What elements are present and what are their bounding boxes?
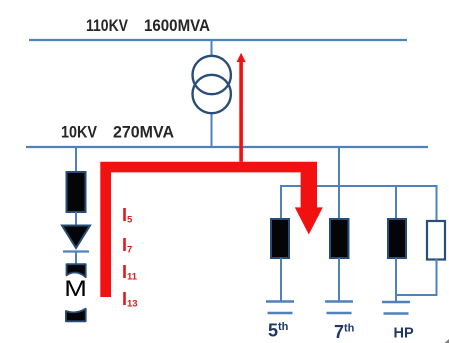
- reactor 5th: [271, 219, 289, 258]
- wire drive branch: [75, 147, 77, 173]
- transformer T1: [193, 56, 231, 113]
- svg-text:I13: I13: [122, 289, 138, 310]
- red harmonic current path: [100, 162, 317, 297]
- svg-text:110KV: 110KV: [86, 16, 129, 35]
- bus 10KV: [26, 146, 428, 148]
- diode D1: [62, 226, 90, 252]
- svg-text:7th: 7th: [334, 322, 355, 342]
- svg-text:270MVA: 270MVA: [113, 123, 174, 142]
- wire 5th branch top: [280, 185, 282, 220]
- wire 7th branch top: [338, 186, 340, 220]
- wire 5th branch bottom: [280, 258, 282, 302]
- red arrow up through transformer: [237, 53, 246, 162]
- converter rectifier block: [67, 172, 86, 212]
- wire converter to diode: [75, 212, 77, 227]
- wire HP branch top: [395, 186, 397, 220]
- filter sub-bus: [280, 185, 437, 187]
- wire diode to motor: [75, 251, 77, 266]
- resistor HP damping: [427, 221, 445, 260]
- motor M: [64, 264, 87, 321]
- wire resistor top: [436, 185, 438, 222]
- svg-text:M: M: [64, 276, 87, 301]
- svg-text:1600MVA: 1600MVA: [144, 16, 210, 35]
- corner artifact: [445, 339, 449, 343]
- capacitor 5th: [266, 302, 294, 314]
- wire 7th branch bottom: [338, 258, 340, 302]
- capacitor HP: [382, 302, 410, 314]
- svg-text:I11: I11: [122, 262, 138, 283]
- wire HP branch bottom: [395, 258, 397, 302]
- reactor HP: [388, 219, 406, 258]
- svg-text:I7: I7: [122, 235, 132, 256]
- svg-text:I5: I5: [122, 205, 133, 226]
- reactor 7th: [330, 219, 349, 258]
- svg-text:10KV: 10KV: [61, 123, 98, 142]
- wire transformer primary/secondary: [211, 40, 213, 147]
- bus 110KV: [29, 39, 407, 41]
- capacitor 7th: [325, 302, 353, 314]
- red arrow down into 5th filter: [295, 172, 323, 235]
- svg-text:HP: HP: [394, 326, 414, 342]
- svg-text:5th: 5th: [268, 321, 289, 341]
- wire resistor bottom to HP branch: [396, 259, 437, 295]
- wire feeder to filter group: [338, 147, 340, 187]
